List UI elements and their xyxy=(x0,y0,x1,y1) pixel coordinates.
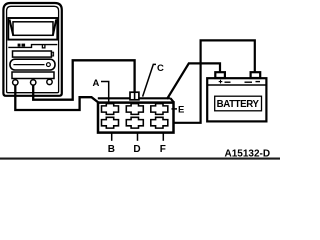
svg-text:E: E xyxy=(178,104,184,115)
jack J1 xyxy=(13,80,18,85)
jack J2 xyxy=(31,80,36,85)
cavity F (bottom-right pin) xyxy=(151,117,168,128)
meter slot 2 xyxy=(12,72,54,79)
slider knob circle xyxy=(47,63,51,67)
meter slot 1 end tab xyxy=(52,52,54,56)
multimeter U1 body xyxy=(3,3,61,96)
cavity D (bottom-middle pin) xyxy=(126,117,143,128)
cavity B (bottom-left pin) xyxy=(102,117,119,128)
connector block front face xyxy=(98,103,174,133)
wire: battery negative terminal loop to block row 2 xyxy=(175,40,255,122)
multimeter inner bezel xyxy=(7,6,59,92)
probe box on cavity C xyxy=(130,92,139,100)
battery terminal post negative xyxy=(251,72,261,78)
svg-text:A: A xyxy=(93,78,100,89)
wire: test lead from jack J2 over top to probe box C xyxy=(33,60,134,99)
battery top face line xyxy=(207,84,266,86)
connector block right bevel xyxy=(171,98,175,102)
bottom rule xyxy=(0,158,280,160)
svg-text:D: D xyxy=(133,144,140,155)
battery vent dash right xyxy=(245,81,253,83)
label C leader xyxy=(143,64,156,96)
svg-text:C: C xyxy=(157,63,164,74)
cavity C (top-middle pin) xyxy=(126,104,143,115)
label A leader xyxy=(101,82,109,103)
divider button right xyxy=(22,44,26,47)
divider hook tab xyxy=(42,45,45,48)
divider button left xyxy=(18,44,21,47)
svg-text:B: B xyxy=(108,144,115,155)
probe box inner pin xyxy=(134,92,136,100)
wire: block to battery positive terminal xyxy=(167,63,220,99)
battery BAT1 body xyxy=(207,78,266,121)
battery terminal post positive xyxy=(215,72,225,78)
connector block back-top edge xyxy=(98,97,171,99)
label E leader xyxy=(172,108,178,110)
meter face divider with step xyxy=(8,45,57,48)
slider track line xyxy=(13,64,44,66)
battery vent dash left xyxy=(225,81,231,83)
display right bevel xyxy=(53,20,56,36)
battery polarity minus mark xyxy=(256,81,261,83)
svg-text:F: F xyxy=(160,144,166,155)
wire: test lead from jack J1 to probe at block corner xyxy=(15,85,99,110)
label B leader xyxy=(111,133,113,141)
meter slot 1 xyxy=(13,51,52,57)
svg-text:BATTERY: BATTERY xyxy=(217,99,260,110)
battery polarity plus mark xyxy=(219,80,223,84)
multimeter display module frame xyxy=(8,18,57,40)
cavity A (top-left pin) xyxy=(102,104,119,115)
meter slider pill xyxy=(10,59,55,70)
jack J3 xyxy=(47,79,52,84)
display left bevel xyxy=(10,20,14,36)
cavity E (top-right pin) xyxy=(151,104,168,115)
battery label box xyxy=(215,96,262,111)
label F leader xyxy=(162,133,164,141)
label D leader xyxy=(137,133,139,141)
svg-text:A15132-D: A15132-D xyxy=(225,148,271,159)
multimeter display screen xyxy=(13,22,53,36)
